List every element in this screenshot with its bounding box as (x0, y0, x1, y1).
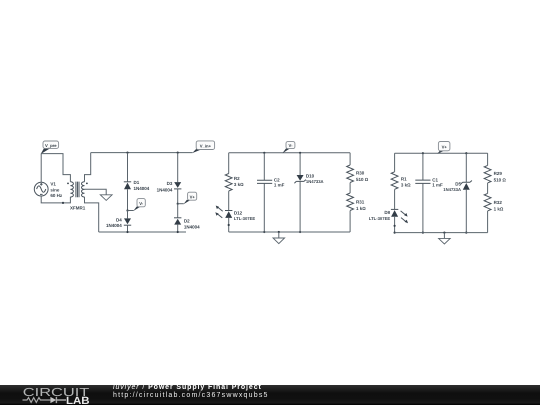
junction bottom rail / D5 (465, 232, 467, 234)
wire XFMR1 center tap to ground (85, 189, 107, 195)
wire C1 to bottom rail (422, 183, 424, 232)
svg-text:R31: R31 (356, 200, 365, 205)
net label V+ (bridge) (178, 192, 197, 204)
zener D10 1N4733A (294, 173, 323, 184)
ground (middle block) (273, 232, 285, 244)
wire V+ node to D2 (177, 204, 179, 218)
svg-text:R30: R30 (356, 171, 365, 176)
svg-text:V+: V+ (442, 145, 448, 150)
net label V- (bridge) (128, 199, 146, 211)
junction bottom rail / C2 (263, 231, 265, 233)
resistor R29 510 Ohm (484, 165, 506, 183)
svg-text:510 Ω: 510 Ω (356, 177, 369, 182)
LED D12 LTL-307EE (215, 206, 255, 221)
resistor R1 3 kOhm (391, 172, 411, 190)
net label V_in+ (192, 141, 214, 153)
diode D1 1N4004 (124, 180, 150, 191)
wire top rail (AC+) (91, 152, 193, 154)
svg-text:R32: R32 (494, 200, 503, 205)
diode D4 1N4004 (106, 218, 131, 229)
svg-text:C2: C2 (274, 177, 280, 182)
svg-text:1N4004: 1N4004 (106, 223, 122, 228)
wire D3 to V+ node (177, 189, 179, 204)
capacitor C1 1 mF (415, 177, 443, 187)
svg-text:R1: R1 (401, 176, 407, 181)
svg-text:V_pre: V_pre (45, 143, 57, 148)
svg-text:1N4733A: 1N4733A (443, 187, 461, 192)
junction bottom rail / D4 (126, 231, 128, 233)
logo wire + resistor (23, 397, 51, 402)
wire D12 to bottom rail (228, 218, 230, 232)
junction top rail / D10 (299, 152, 301, 154)
junction D12 cathode (228, 224, 230, 226)
junction D8 cathode (394, 225, 396, 227)
svg-text:D10: D10 (306, 173, 315, 178)
svg-text:1N4004: 1N4004 (157, 188, 173, 193)
wire rail to D1 (127, 153, 129, 182)
junction top rail / C1 (422, 152, 424, 154)
junction bottom rail / C1 (422, 232, 424, 234)
ground (right block) (439, 233, 451, 244)
junction bottom rail / ground (right) (443, 232, 445, 234)
svg-text:1N4004: 1N4004 (134, 186, 150, 191)
wire V+ rail (top, right block) (395, 152, 488, 154)
wire V- node to D4 (127, 211, 129, 219)
junction top rail / D3 (177, 152, 179, 154)
junction bottom rail left corner (394, 232, 396, 234)
svg-text:D1: D1 (134, 180, 140, 185)
junction V+ node (177, 203, 179, 205)
wire R29 to R32 (487, 183, 489, 193)
wire R30 to R31 (349, 183, 351, 193)
wire rail to C2 (263, 153, 265, 180)
wire D5 to bottom rail (465, 190, 467, 233)
svg-text:1 kΩ: 1 kΩ (356, 206, 366, 211)
wire rail to D3 (177, 153, 179, 183)
svg-text:1 mF: 1 mF (274, 183, 285, 188)
resistor R31 1 kOhm (347, 193, 367, 211)
diode D2 1N4004 (174, 218, 200, 230)
svg-text:D2: D2 (184, 218, 190, 223)
wire XFMR1 secondary top to top rail (85, 153, 91, 182)
transformer XFMR1 (67, 182, 88, 211)
wire C2 to bottom rail (263, 183, 265, 232)
junction V- node (126, 209, 128, 211)
logo diode (50, 396, 56, 402)
wire rail to R29 (487, 153, 489, 165)
wire bottom rail (AC-) (99, 231, 186, 233)
wire D10 to bottom rail (299, 181, 301, 232)
net label V_pre (41, 141, 59, 154)
wire D1 to V- node (127, 189, 129, 210)
wire V- rail (top, middle block) (229, 152, 350, 154)
wire V1 bottom to XFMR1 primary bottom (41, 196, 70, 203)
junction at V1 return (62, 202, 64, 204)
junction bottom rail / ground (278, 231, 280, 233)
diode D3 1N4004 (157, 181, 182, 193)
ground (center tap) (100, 195, 112, 201)
net label V- (regulator) (282, 142, 295, 154)
wire R2 to D12 (228, 191, 230, 210)
svg-text:60 Hz: 60 Hz (50, 193, 63, 198)
svg-text:R2: R2 (234, 176, 240, 181)
junction top rail / D1 (126, 152, 128, 154)
wire V_pre to V1 top (40, 154, 42, 183)
wire bottom rail (right block) (395, 232, 488, 234)
LED D8 LTL-307EE (369, 209, 408, 223)
svg-text:C1: C1 (432, 177, 438, 182)
svg-text:LTL-307EE: LTL-307EE (234, 216, 256, 221)
wire R1 to D8 (394, 189, 396, 209)
svg-text:D8: D8 (384, 210, 390, 215)
svg-text:D3: D3 (167, 181, 173, 186)
wire rail to R30 (349, 153, 351, 165)
wire rail to D5 (465, 153, 467, 182)
wire rail to D10 (299, 153, 301, 175)
junction bottom rail / D10 (299, 231, 301, 233)
wire R31 to bottom rail (349, 211, 351, 232)
net label V+ (regulator) (437, 142, 450, 154)
svg-text:3 kΩ: 3 kΩ (234, 182, 244, 187)
wire R32 to bottom rail (487, 211, 489, 233)
resistor R32 1 kOhm (484, 193, 504, 211)
source V1 (34, 181, 63, 198)
svg-text:V1: V1 (50, 181, 56, 186)
wire rail to R2 (228, 153, 230, 174)
wire rail to C1 (422, 153, 424, 180)
svg-text:1N4733A: 1N4733A (306, 179, 324, 184)
svg-text:1N4004: 1N4004 (184, 224, 200, 229)
zener D5 1N4733A (443, 181, 472, 192)
resistor R2 3 kOhm (225, 174, 244, 192)
wire XFMR1 secondary bottom to bottom rail (85, 197, 99, 232)
wire D4 to bottom rail (127, 225, 129, 232)
svg-text:1 mF: 1 mF (432, 183, 443, 188)
svg-text:D12: D12 (234, 210, 243, 215)
svg-text:LAB: LAB (66, 395, 90, 405)
svg-text:1 kΩ: 1 kΩ (494, 207, 504, 212)
capacitor C2 1 mF (257, 177, 285, 187)
wire D2 to bottom rail (177, 225, 179, 232)
resistor R30 510 Ohm (347, 165, 369, 183)
svg-text:3 kΩ: 3 kΩ (401, 183, 411, 188)
junction bottom rail / D2 (177, 231, 179, 233)
svg-text:R29: R29 (494, 171, 503, 176)
svg-text:D4: D4 (116, 218, 122, 223)
junction top rail / C2 (263, 152, 265, 154)
wire V_pre to XFMR1 primary top (41, 154, 70, 182)
wire D8 to bottom rail (394, 217, 396, 233)
svg-text:LTL-307EE: LTL-307EE (369, 216, 391, 221)
wire rail to R1 (394, 153, 396, 172)
svg-text:sine: sine (50, 187, 60, 192)
wire bottom rail (middle block) (229, 231, 350, 233)
svg-text:510 Ω: 510 Ω (494, 178, 507, 183)
svg-text:V+: V+ (190, 194, 196, 199)
svg-text:V-: V- (139, 201, 144, 206)
junction top rail / D5 (465, 152, 467, 154)
svg-text:V-: V- (289, 143, 294, 148)
svg-text:V_in+: V_in+ (200, 143, 212, 148)
svg-text:XFMR1: XFMR1 (70, 206, 86, 211)
